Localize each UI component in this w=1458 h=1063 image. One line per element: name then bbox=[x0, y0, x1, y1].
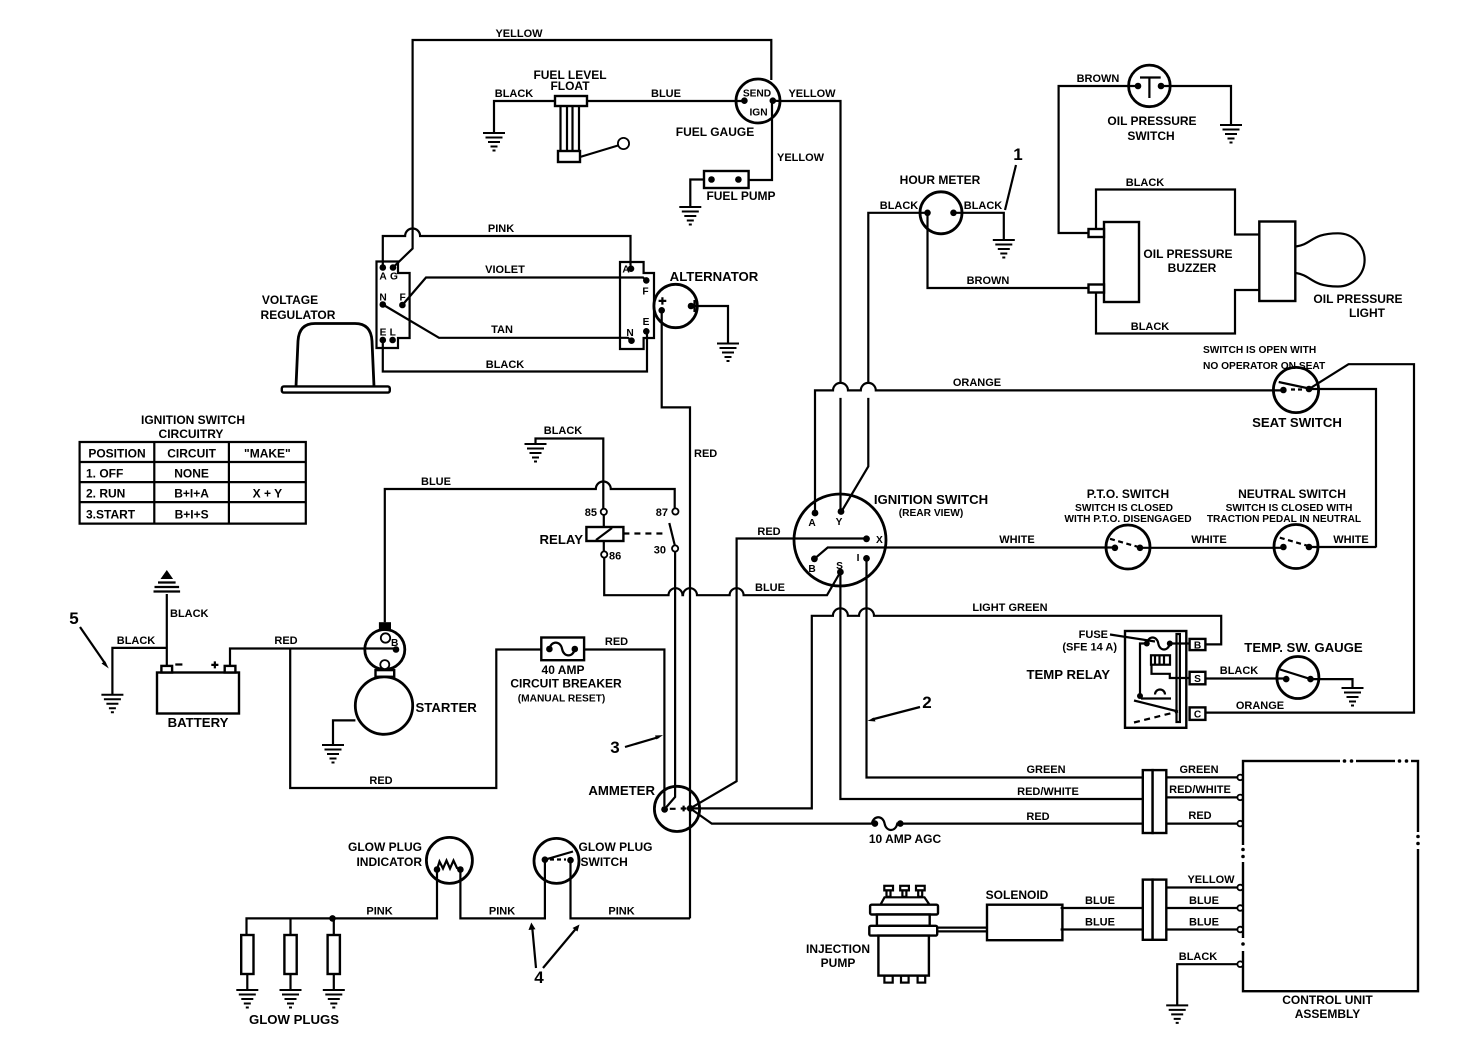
ground (control unit) bbox=[1166, 1005, 1188, 1023]
svg-text:OIL PRESSURE: OIL PRESSURE bbox=[1107, 114, 1196, 128]
seat switch bbox=[1273, 367, 1318, 412]
hour meter bbox=[920, 192, 962, 234]
svg-text:S: S bbox=[1194, 674, 1201, 685]
wire TAN regulator N to alternator connector N bbox=[383, 305, 632, 341]
svg-text:1: 1 bbox=[1013, 145, 1022, 164]
wire BLUE solenoid to connector (lower) bbox=[1061, 928, 1143, 930]
wire WHITE neutral switch to seat switch riser bbox=[1309, 546, 1376, 548]
svg-text:B+I+A: B+I+A bbox=[174, 487, 209, 501]
svg-text:BLUE: BLUE bbox=[651, 88, 681, 100]
svg-text:B: B bbox=[391, 638, 398, 649]
svg-text:WHITE: WHITE bbox=[1333, 534, 1368, 546]
svg-text:A: A bbox=[622, 265, 630, 276]
fuse callout line bbox=[1110, 635, 1155, 642]
svg-text:SWITCH IS OPEN WITH: SWITCH IS OPEN WITH bbox=[1203, 345, 1316, 356]
svg-text:NO OPERATOR ON SEAT: NO OPERATOR ON SEAT bbox=[1203, 361, 1326, 372]
svg-text:TAN: TAN bbox=[491, 324, 513, 336]
svg-text:GLOW PLUG: GLOW PLUG bbox=[579, 840, 653, 854]
connector block lower bbox=[1143, 880, 1166, 940]
temp sw gauge bbox=[1277, 657, 1319, 699]
svg-text:(MANUAL RESET): (MANUAL RESET) bbox=[518, 694, 606, 705]
wire seat switch blade to temp relay C (orange loop) bbox=[1205, 364, 1414, 712]
svg-text:S: S bbox=[836, 561, 843, 572]
wire BLACK temp relay S to temp gauge bbox=[1205, 677, 1286, 679]
wire BLACK battery minus to left ground bbox=[112, 648, 166, 695]
svg-text:B: B bbox=[1194, 641, 1201, 652]
svg-text:B: B bbox=[808, 564, 815, 575]
fuel level float bbox=[555, 96, 629, 162]
svg-text:BLACK: BLACK bbox=[495, 88, 534, 100]
wire oil switch to ground bbox=[1161, 86, 1231, 125]
svg-text:PUMP: PUMP bbox=[821, 956, 856, 970]
svg-text:BLUE: BLUE bbox=[421, 476, 451, 488]
ground (fuel pump) bbox=[679, 207, 701, 225]
oil pressure buzzer bbox=[1089, 222, 1140, 302]
wire BLUE solenoid to connector (upper) bbox=[1061, 907, 1143, 909]
wire YELLOW fuel gauge to fuel pump bbox=[749, 101, 772, 180]
svg-text:RELAY: RELAY bbox=[540, 532, 584, 547]
svg-text:IGNITION SWITCH: IGNITION SWITCH bbox=[141, 413, 245, 427]
wire GREEN ignition I to connector bbox=[867, 558, 1143, 777]
wire BROWN oil switch to buzzer upper tab bbox=[1059, 86, 1138, 233]
svg-text:BROWN: BROWN bbox=[1077, 73, 1120, 85]
ground (battery left) bbox=[101, 695, 123, 713]
svg-text:TRACTION PEDAL IN NEUTRAL: TRACTION PEDAL IN NEUTRAL bbox=[1207, 514, 1361, 525]
wire BLACK control unit to ground bbox=[1177, 964, 1237, 1005]
temp relay thermal strip bbox=[1177, 634, 1180, 722]
svg-text:GLOW PLUGS: GLOW PLUGS bbox=[249, 1012, 339, 1027]
svg-text:LIGHT: LIGHT bbox=[1349, 306, 1386, 320]
svg-text:IGN: IGN bbox=[749, 108, 767, 119]
voltage regulator body bbox=[282, 324, 390, 393]
svg-text:STARTER: STARTER bbox=[416, 700, 478, 715]
neutral switch bbox=[1274, 525, 1318, 569]
svg-text:C: C bbox=[1194, 710, 1202, 721]
temp relay coil bbox=[1151, 655, 1170, 664]
wire BLACK ground to relay 85 bbox=[536, 439, 604, 509]
svg-text:Y: Y bbox=[836, 517, 843, 528]
temp relay fuse bbox=[1144, 638, 1190, 650]
svg-text:A: A bbox=[379, 272, 387, 283]
wire BLACK buzzer top loop bbox=[1096, 190, 1259, 235]
svg-text:REGULATOR: REGULATOR bbox=[261, 308, 336, 322]
wire LIGHT GREEN ammeter + to temp relay B bbox=[690, 608, 1221, 808]
svg-text:CIRCUITRY: CIRCUITRY bbox=[159, 427, 224, 441]
svg-text:RED: RED bbox=[1188, 810, 1211, 822]
svg-text:E: E bbox=[643, 317, 650, 328]
ammeter bbox=[654, 786, 699, 831]
svg-text:BROWN: BROWN bbox=[967, 275, 1010, 287]
wire hour meter to ground bbox=[954, 213, 1004, 240]
svg-text:YELLOW: YELLOW bbox=[1187, 874, 1235, 886]
svg-text:"MAKE": "MAKE" bbox=[244, 447, 291, 461]
svg-text:PINK: PINK bbox=[488, 223, 514, 235]
svg-text:HOUR METER: HOUR METER bbox=[900, 173, 981, 187]
svg-text:INJECTION: INJECTION bbox=[806, 942, 870, 956]
glow plug 1 bbox=[241, 935, 253, 990]
wire RED/WHITE connector to control unit bbox=[1166, 796, 1237, 798]
svg-text:OIL PRESSURE: OIL PRESSURE bbox=[1143, 247, 1232, 261]
40 amp circuit breaker bbox=[541, 638, 584, 661]
svg-text:CIRCUIT: CIRCUIT bbox=[167, 447, 216, 461]
svg-text:N: N bbox=[626, 328, 633, 339]
wire PINK bus ammeter + to glow plugs bbox=[247, 860, 691, 935]
wire BLACK hour meter to ignition Y bbox=[842, 213, 928, 512]
svg-text:RED: RED bbox=[1026, 811, 1049, 823]
svg-text:RED: RED bbox=[757, 526, 780, 538]
svg-text:SWITCH: SWITCH bbox=[581, 855, 628, 869]
svg-text:WHITE: WHITE bbox=[1191, 534, 1226, 546]
svg-text:POSITION: POSITION bbox=[88, 447, 145, 461]
svg-text:AMMETER: AMMETER bbox=[588, 783, 655, 798]
wire VIOLET regulator F to alternator connector F bbox=[402, 278, 646, 306]
svg-text:RED/WHITE: RED/WHITE bbox=[1169, 784, 1231, 796]
svg-text:(SFE 14 A): (SFE 14 A) bbox=[1062, 642, 1117, 654]
wire temp gauge to ground bbox=[1311, 679, 1353, 688]
temp relay terminal B bbox=[1190, 639, 1206, 650]
temp relay terminal C bbox=[1190, 707, 1206, 720]
svg-text:40 AMP: 40 AMP bbox=[542, 663, 585, 677]
svg-text:4: 4 bbox=[534, 968, 544, 987]
fuel gauge U2 bbox=[736, 79, 780, 123]
wire PINK regulator A to alternator connector A bbox=[383, 229, 631, 268]
svg-text:(REAR VIEW): (REAR VIEW) bbox=[899, 508, 964, 519]
oil pressure light bbox=[1259, 222, 1364, 302]
svg-text:GREEN: GREEN bbox=[1026, 764, 1065, 776]
connector block upper bbox=[1143, 770, 1166, 833]
svg-text:BLACK: BLACK bbox=[1220, 665, 1259, 677]
wire injection pump to solenoid bbox=[937, 928, 987, 932]
svg-text:RED: RED bbox=[274, 635, 297, 647]
svg-text:VOLTAGE: VOLTAGE bbox=[262, 293, 318, 307]
svg-text:86: 86 bbox=[609, 551, 621, 563]
fuel pump bbox=[704, 171, 749, 188]
wire RED ammeter + to ignition X bbox=[690, 539, 866, 809]
svg-text:SWITCH: SWITCH bbox=[1127, 129, 1174, 143]
svg-text:BLACK: BLACK bbox=[880, 200, 919, 212]
svg-text:LIGHT GREEN: LIGHT GREEN bbox=[972, 602, 1047, 614]
wire BLUE connector to control unit (upper) bbox=[1166, 907, 1237, 909]
wire battery minus to chassis ground bbox=[166, 594, 168, 666]
wire alternator to ground bbox=[695, 306, 729, 344]
svg-text:BLACK: BLACK bbox=[544, 425, 583, 437]
svg-text:NEUTRAL SWITCH: NEUTRAL SWITCH bbox=[1238, 487, 1346, 501]
svg-text:FUEL GAUGE: FUEL GAUGE bbox=[676, 125, 754, 139]
svg-text:A: A bbox=[808, 518, 816, 529]
glow plug 2 bbox=[284, 918, 296, 990]
svg-text:BLACK: BLACK bbox=[964, 200, 1003, 212]
wire YELLOW fuel gauge IGN to ignition Y (vertical x=840.5) bbox=[773, 101, 841, 512]
svg-text:3: 3 bbox=[610, 738, 619, 757]
svg-text:85: 85 bbox=[585, 507, 597, 519]
svg-text:RED/WHITE: RED/WHITE bbox=[1017, 786, 1079, 798]
ground (glow plug 3) bbox=[323, 990, 345, 1008]
alternator bbox=[654, 284, 697, 327]
svg-text:SEND: SEND bbox=[743, 89, 771, 100]
wire RED battery + to starter B bbox=[230, 649, 396, 666]
svg-text:PINK: PINK bbox=[489, 906, 515, 918]
temp relay terminal S bbox=[1190, 672, 1206, 685]
svg-text:1. OFF: 1. OFF bbox=[86, 467, 123, 481]
svg-text:FLOAT: FLOAT bbox=[550, 79, 590, 93]
starter motor bbox=[355, 670, 412, 734]
ground (relay black) bbox=[525, 444, 547, 462]
svg-text:BLUE: BLUE bbox=[1085, 895, 1115, 907]
svg-text:NONE: NONE bbox=[174, 467, 209, 481]
wire WHITE PTO to neutral switch bbox=[1140, 547, 1283, 549]
wire BLACK buzzer bottom loop bbox=[1096, 290, 1259, 334]
ground (temp gauge) bbox=[1342, 688, 1364, 706]
starter solenoid bbox=[365, 622, 405, 669]
injection pump bbox=[869, 886, 938, 983]
battery bbox=[157, 661, 239, 713]
svg-text:WITH P.T.O. DISENGAGED: WITH P.T.O. DISENGAGED bbox=[1064, 514, 1191, 525]
wire RED battery branch to circuit breaker (bottom loop) bbox=[290, 649, 541, 789]
svg-text:OIL PRESSURE: OIL PRESSURE bbox=[1313, 292, 1402, 306]
svg-text:B+I+S: B+I+S bbox=[175, 508, 209, 522]
svg-text:ASSEMBLY: ASSEMBLY bbox=[1295, 1007, 1361, 1021]
svg-text:30: 30 bbox=[654, 545, 666, 557]
svg-text:INDICATOR: INDICATOR bbox=[356, 855, 422, 869]
svg-text:GLOW PLUG: GLOW PLUG bbox=[348, 840, 422, 854]
wire BLUE connector to control unit (lower) bbox=[1166, 928, 1237, 930]
svg-text:BLACK: BLACK bbox=[170, 608, 209, 620]
wire starter to ground bbox=[333, 720, 355, 745]
svg-text:2. RUN: 2. RUN bbox=[86, 487, 125, 501]
svg-text:SOLENOID: SOLENOID bbox=[986, 888, 1049, 902]
svg-text:BLUE: BLUE bbox=[755, 582, 785, 594]
wire RED/WHITE ignition S to connector bbox=[840, 572, 1142, 799]
svg-text:X: X bbox=[876, 535, 883, 546]
glow plug indicator bbox=[426, 837, 472, 883]
P.T.O. switch bbox=[1106, 525, 1150, 569]
temp relay box bbox=[1125, 631, 1186, 728]
svg-text:RED: RED bbox=[369, 775, 392, 787]
wire YELLOW connector to control unit bbox=[1166, 886, 1237, 888]
svg-text:BLACK: BLACK bbox=[1131, 321, 1170, 333]
svg-text:PINK: PINK bbox=[608, 906, 634, 918]
svg-text:X + Y: X + Y bbox=[253, 487, 282, 501]
battery up ground (chassis) bbox=[154, 570, 181, 592]
svg-text:RED: RED bbox=[605, 636, 628, 648]
ground (alternator) bbox=[717, 344, 739, 362]
svg-text:BLUE: BLUE bbox=[1085, 917, 1115, 929]
ground (oil switch) bbox=[1220, 125, 1242, 143]
junction dot on pink bus bbox=[329, 915, 336, 922]
svg-text:YELLOW: YELLOW bbox=[788, 88, 836, 100]
svg-text:2: 2 bbox=[922, 693, 931, 712]
svg-text:BLUE: BLUE bbox=[1189, 917, 1219, 929]
wire BLACK fuel float to ground bbox=[494, 101, 555, 133]
svg-text:SEAT SWITCH: SEAT SWITCH bbox=[1252, 415, 1342, 430]
oil pressure switch bbox=[1129, 65, 1171, 107]
svg-text:CIRCUIT BREAKER: CIRCUIT BREAKER bbox=[510, 677, 622, 691]
svg-text:PINK: PINK bbox=[366, 906, 392, 918]
svg-text:YELLOW: YELLOW bbox=[777, 152, 825, 164]
wire BLACK regulator E to alternator connector E bbox=[383, 331, 647, 371]
svg-text:SWITCH IS CLOSED WITH: SWITCH IS CLOSED WITH bbox=[1226, 503, 1353, 514]
wire ORANGE ignition A to seat switch bbox=[815, 383, 1283, 513]
glow plug switch bbox=[534, 838, 579, 883]
svg-text:ALTERNATOR: ALTERNATOR bbox=[670, 269, 759, 284]
svg-text:TEMP. SW. GAUGE: TEMP. SW. GAUGE bbox=[1244, 640, 1363, 655]
ignition switch circuitry table bbox=[80, 442, 306, 524]
svg-text:ORANGE: ORANGE bbox=[953, 377, 1001, 389]
svg-text:5: 5 bbox=[69, 609, 78, 628]
wire BROWN hour meter to buzzer lower tab bbox=[928, 213, 1089, 288]
svg-text:BLACK: BLACK bbox=[486, 359, 525, 371]
svg-text:IGNITION SWITCH: IGNITION SWITCH bbox=[874, 492, 988, 507]
wire YELLOW top (regulator G to fuel gauge) bbox=[393, 40, 771, 268]
wire seat switch right dot to white bus bbox=[1309, 389, 1376, 548]
wire RED connector to control unit bbox=[1166, 822, 1237, 824]
svg-text:VIOLET: VIOLET bbox=[485, 264, 525, 276]
svg-text:WHITE: WHITE bbox=[999, 534, 1034, 546]
svg-text:SWITCH IS CLOSED: SWITCH IS CLOSED bbox=[1075, 503, 1173, 514]
ground (starter) bbox=[322, 745, 344, 763]
svg-text:BLACK: BLACK bbox=[1126, 177, 1165, 189]
svg-text:I: I bbox=[857, 553, 860, 564]
svg-text:RED: RED bbox=[694, 448, 717, 460]
ground (hour meter) bbox=[993, 240, 1015, 258]
wire BLUE starter to relay 87 bbox=[385, 482, 675, 623]
solenoid bbox=[987, 905, 1062, 941]
svg-text:BLACK: BLACK bbox=[117, 635, 156, 647]
svg-text:G: G bbox=[390, 272, 398, 283]
svg-text:YELLOW: YELLOW bbox=[495, 28, 543, 40]
svg-text:10 AMP AGC: 10 AMP AGC bbox=[869, 832, 942, 846]
svg-text:BLUE: BLUE bbox=[1189, 895, 1219, 907]
control unit assembly box bbox=[1241, 759, 1422, 991]
temp relay internal wires bbox=[1134, 644, 1190, 723]
svg-text:FUSE: FUSE bbox=[1079, 629, 1108, 641]
svg-text:FUEL PUMP: FUEL PUMP bbox=[706, 189, 775, 203]
svg-text:CONTROL UNIT: CONTROL UNIT bbox=[1282, 993, 1373, 1007]
ignition switch (rear view) bbox=[794, 494, 886, 586]
svg-text:3.START: 3.START bbox=[86, 508, 136, 522]
wire relay 30 down to ammeter - bbox=[666, 552, 675, 808]
wire BLUE relay 86 to ignition S bbox=[604, 558, 840, 596]
svg-text:BATTERY: BATTERY bbox=[168, 715, 229, 730]
svg-text:GREEN: GREEN bbox=[1179, 764, 1218, 776]
voltage regulator connector block bbox=[377, 262, 410, 349]
alternator connector block bbox=[620, 262, 654, 349]
svg-text:ORANGE: ORANGE bbox=[1236, 700, 1284, 712]
svg-text:P.T.O. SWITCH: P.T.O. SWITCH bbox=[1087, 487, 1169, 501]
wire RED breaker to ammeter - bbox=[584, 650, 664, 807]
ground (glow plug 1) bbox=[236, 990, 258, 1008]
wire RED ammeter to 10 amp fuse to connector bbox=[690, 808, 872, 823]
ground (glow plug 2) bbox=[280, 990, 302, 1008]
svg-text:BLACK: BLACK bbox=[1179, 951, 1218, 963]
svg-text:TEMP RELAY: TEMP RELAY bbox=[1026, 667, 1110, 682]
wire WHITE ignition B to PTO switch bbox=[814, 548, 1115, 559]
relay bbox=[585, 507, 679, 563]
fuse 10 AMP AGC bbox=[872, 817, 904, 830]
svg-text:87: 87 bbox=[656, 507, 668, 519]
glow plug 3 bbox=[328, 918, 340, 990]
ground (fuel float) bbox=[483, 133, 505, 151]
wire BLUE float to fuel gauge SEND bbox=[587, 100, 744, 102]
wire RED alternator + down to ammeter + bbox=[662, 310, 690, 918]
svg-text:BUZZER: BUZZER bbox=[1168, 261, 1217, 275]
svg-text:F: F bbox=[642, 287, 648, 298]
wire fuel pump to ground bbox=[690, 180, 704, 208]
wire GREEN connector to control unit bbox=[1166, 776, 1237, 778]
